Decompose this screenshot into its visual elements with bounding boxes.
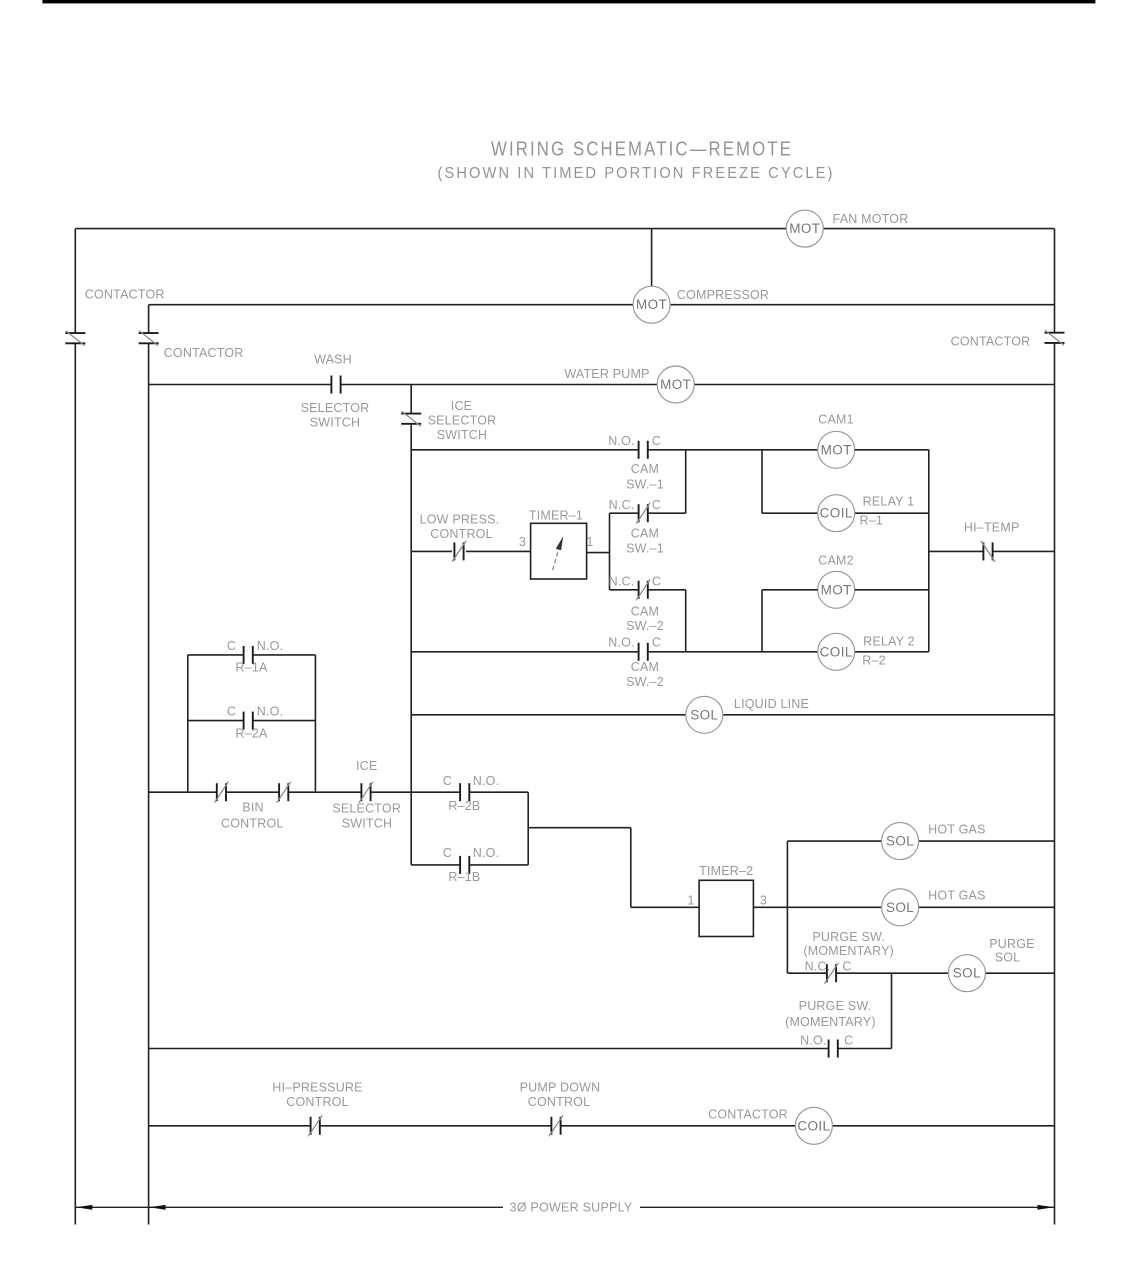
svg-text:R–1B: R–1B (448, 870, 480, 884)
contact CAM SW.-1 N.O. (638, 441, 640, 459)
svg-text:3: 3 (760, 894, 767, 908)
svg-text:SOL: SOL (995, 951, 1021, 965)
svg-text:SOL: SOL (953, 966, 981, 981)
wire r2b bus vertical (527, 792, 529, 865)
svg-text:C: C (227, 705, 236, 719)
svg-text:(SHOWN IN TIMED PORTION FREEZE: (SHOWN IN TIMED PORTION FREEZE CYCLE) (438, 165, 835, 182)
svg-text:COIL: COIL (797, 1118, 830, 1133)
svg-text:MOT: MOT (660, 377, 691, 392)
wire timer output bus vertical (609, 513, 611, 590)
wire cam2 row right (762, 589, 818, 591)
svg-text:SOL: SOL (886, 900, 914, 915)
solenoid SOL purge (948, 955, 985, 992)
contactor contact right rail (1045, 332, 1065, 334)
svg-text:COIL: COIL (820, 506, 853, 521)
motor MOT fan (786, 210, 823, 247)
contact bin control 2 N.C. (278, 783, 280, 801)
solenoid SOL hot gas 2 (882, 889, 919, 926)
svg-text:SWITCH: SWITCH (437, 428, 488, 442)
wire contactor coil row (149, 1125, 311, 1127)
svg-text:R–2B: R–2B (448, 799, 480, 813)
contact bin control 1 N.C. (216, 783, 218, 801)
svg-text:MOT: MOT (636, 297, 667, 312)
svg-text:RELAY 1: RELAY 1 (863, 495, 915, 509)
svg-text:CONTACTOR: CONTACTOR (708, 1108, 788, 1122)
svg-text:HI–PRESSURE: HI–PRESSURE (272, 1081, 362, 1095)
svg-text:SW.–1: SW.–1 (626, 477, 664, 491)
contact CAM SW.-2 N.C. (638, 581, 640, 599)
wire cam sw-2 N.O. row (411, 651, 638, 653)
contact hi-pressure control N.C. (310, 1117, 312, 1135)
svg-text:CAM: CAM (631, 526, 659, 540)
wire timer-2 input (631, 906, 699, 908)
svg-text:CAM1: CAM1 (818, 413, 854, 427)
wire compressor row (149, 304, 634, 306)
svg-text:SW.–2: SW.–2 (626, 675, 664, 689)
wire r-1b row (411, 864, 460, 866)
svg-text:COIL: COIL (820, 644, 853, 659)
svg-text:PURGE: PURGE (989, 937, 1034, 951)
svg-text:R–2: R–2 (862, 654, 886, 668)
wire timer-2 output (753, 906, 787, 908)
contact ice selector N.C. lower (360, 783, 362, 801)
svg-text:N.C.: N.C. (609, 575, 635, 589)
svg-text:PUMP DOWN: PUMP DOWN (520, 1081, 601, 1095)
wire purge right vertical (891, 973, 893, 1048)
svg-text:HI–TEMP: HI–TEMP (964, 520, 1020, 534)
svg-text:TIMER–2: TIMER–2 (699, 864, 753, 878)
svg-text:COMPRESSOR: COMPRESSOR (677, 288, 769, 302)
contact hi-temp N.C. (982, 542, 984, 560)
svg-text:WATER PUMP: WATER PUMP (564, 367, 649, 381)
svg-text:R–2A: R–2A (235, 727, 268, 741)
wire relay2 branch left (761, 590, 763, 652)
motor MOT CAM2 (818, 571, 855, 608)
svg-text:ICE: ICE (451, 399, 472, 413)
motor MOT water pump (657, 366, 694, 403)
contactor contact left rail (65, 332, 85, 334)
svg-text:CAM: CAM (631, 462, 659, 476)
timer T2 box (699, 880, 753, 936)
contact low press control N.C. (453, 542, 455, 560)
svg-text:BIN: BIN (242, 801, 263, 815)
motor MOT compressor (633, 286, 670, 323)
contactor contact second rail (139, 332, 159, 334)
svg-text:R–1A: R–1A (235, 661, 268, 675)
contact R-1A N.O. (243, 646, 245, 664)
wire L2 rail (148, 305, 150, 333)
wire relay1 branch left (761, 450, 763, 513)
svg-text:N.O.: N.O. (608, 635, 635, 649)
coil COIL relay 1 (818, 495, 855, 532)
svg-text:C: C (227, 639, 236, 653)
svg-text:HOT GAS: HOT GAS (928, 889, 985, 903)
svg-text:C: C (443, 846, 452, 860)
contact CAM SW.-1 N.C. (638, 504, 640, 522)
wire r-2a row (188, 720, 244, 722)
svg-text:N.O.: N.O. (800, 1034, 827, 1048)
svg-text:LOW PRESS.: LOW PRESS. (420, 513, 500, 527)
wire coil r1 row (762, 512, 818, 514)
svg-text:C: C (652, 575, 661, 589)
svg-text:MOT: MOT (821, 442, 852, 457)
solenoid SOL liquid line (686, 696, 723, 733)
wire coil r2 row (762, 651, 818, 653)
svg-text:N.C.: N.C. (805, 960, 831, 974)
contact R-2B N.O. (459, 783, 461, 801)
timer T1 box (531, 523, 587, 579)
wire bin control row (149, 791, 217, 793)
wire hot gas 1 row (787, 840, 881, 842)
solenoid SOL hot gas 1 (882, 823, 919, 860)
svg-text:C: C (443, 774, 452, 788)
contact R-1B N.O. (459, 856, 461, 874)
svg-text:SWITCH: SWITCH (342, 817, 393, 831)
svg-text:C: C (652, 434, 661, 448)
coil COIL relay 2 (818, 633, 855, 670)
wire right rail (1054, 229, 1056, 333)
svg-text:RELAY 2: RELAY 2 (863, 635, 915, 649)
ice selector switch contact N.C. (401, 413, 421, 415)
svg-text:CAM: CAM (631, 660, 659, 674)
svg-text:WASH: WASH (314, 353, 352, 367)
svg-text:N.O.: N.O. (473, 846, 500, 860)
svg-text:CAM: CAM (631, 604, 659, 618)
svg-text:WIRING SCHEMATIC—REMOTE: WIRING SCHEMATIC—REMOTE (491, 137, 793, 160)
svg-text:C: C (842, 960, 851, 974)
svg-text:C: C (652, 498, 661, 512)
svg-text:CONTACTOR: CONTACTOR (164, 346, 244, 360)
wash selector switch contact N.O. (330, 376, 332, 394)
svg-text:N.O.: N.O. (257, 639, 284, 653)
svg-text:CONTROL: CONTROL (286, 1095, 349, 1109)
svg-text:N.O.: N.O. (608, 434, 635, 448)
svg-text:CAM2: CAM2 (818, 553, 854, 567)
svg-text:SOL: SOL (690, 707, 718, 722)
svg-text:SW.–1: SW.–1 (626, 542, 664, 556)
contact purge sw N.C. (826, 964, 828, 982)
wire junction 686 down (685, 450, 687, 513)
svg-text:N.C.: N.C. (609, 498, 635, 512)
svg-text:SELECTOR: SELECTOR (332, 802, 401, 816)
svg-text:SOL: SOL (886, 834, 914, 849)
wire timer-1 output (587, 552, 610, 554)
wire cam1 to right bus (855, 449, 929, 451)
wire jog to timer-2 (528, 827, 631, 829)
svg-text:MOT: MOT (821, 582, 852, 597)
timer-1 arrow (553, 543, 561, 570)
svg-text:PURGE SW.: PURGE SW. (799, 999, 872, 1013)
svg-text:C: C (652, 635, 661, 649)
coil COIL contactor (795, 1107, 832, 1144)
svg-text:1: 1 (687, 894, 694, 908)
svg-text:SWITCH: SWITCH (310, 416, 361, 430)
svg-text:1: 1 (586, 535, 593, 549)
svg-text:CONTROL: CONTROL (528, 1095, 591, 1109)
contact CAM SW.-2 N.O. (638, 643, 640, 661)
svg-text:CONTACTOR: CONTACTOR (85, 288, 165, 302)
wire purge no row (149, 1048, 829, 1050)
dimension line power supply (75, 1206, 148, 1208)
svg-text:(MOMENTARY): (MOMENTARY) (803, 944, 894, 958)
svg-text:SELECTOR: SELECTOR (428, 414, 497, 428)
wire ice selector rail (410, 385, 412, 414)
motor MOT CAM1 (818, 431, 855, 468)
svg-text:ICE: ICE (356, 759, 377, 773)
wire timer-1 input (411, 550, 452, 552)
svg-text:MOT: MOT (789, 221, 820, 236)
wire liquid line row (411, 714, 686, 716)
wire hot gas 2 row (787, 906, 881, 908)
wire water pump row (149, 384, 332, 386)
contact R-2A N.O. (243, 712, 245, 730)
contact purge sw N.O. (828, 1040, 830, 1058)
wire r-1a row (188, 654, 244, 656)
wire cam sw-2 N.C. row (610, 589, 639, 591)
wire r1a r2a block left (187, 655, 189, 792)
wire fan motor row (75, 228, 786, 230)
svg-text:(MOMENTARY): (MOMENTARY) (785, 1015, 876, 1029)
wire L1 rail left (74, 229, 76, 333)
svg-text:CONTROL: CONTROL (221, 817, 284, 831)
svg-text:C: C (844, 1034, 853, 1048)
svg-text:SELECTOR: SELECTOR (301, 401, 370, 415)
contact pump down control N.C. (550, 1117, 552, 1135)
wire junction 686 down lower (685, 590, 687, 652)
svg-text:SW.–2: SW.–2 (626, 619, 664, 633)
wire hot gas bus vertical (786, 841, 788, 973)
svg-text:N.O.: N.O. (257, 705, 284, 719)
svg-text:CONTACTOR: CONTACTOR (951, 335, 1031, 349)
svg-text:LIQUID LINE: LIQUID LINE (734, 697, 809, 711)
wire purge nc row (787, 972, 826, 974)
svg-text:PURGE SW.: PURGE SW. (812, 930, 885, 944)
svg-text:FAN MOTOR: FAN MOTOR (833, 212, 909, 226)
svg-text:CONTROL: CONTROL (430, 527, 493, 541)
wire right cam bus (928, 450, 930, 652)
svg-text:N.O.: N.O. (473, 774, 500, 788)
svg-text:3: 3 (519, 535, 526, 549)
svg-text:HOT GAS: HOT GAS (928, 822, 985, 836)
svg-text:TIMER–1: TIMER–1 (529, 509, 583, 523)
svg-text:3Ø POWER SUPPLY: 3Ø POWER SUPPLY (510, 1201, 633, 1215)
wire cam sw-1 N.C. row (610, 512, 639, 514)
wire cam sw-1 N.O. row (411, 449, 638, 451)
wire hi-temp row (929, 550, 983, 552)
wire r1a r2a block right (314, 655, 316, 792)
svg-text:R–1: R–1 (860, 513, 884, 527)
wire compressor feed vertical (651, 229, 653, 287)
